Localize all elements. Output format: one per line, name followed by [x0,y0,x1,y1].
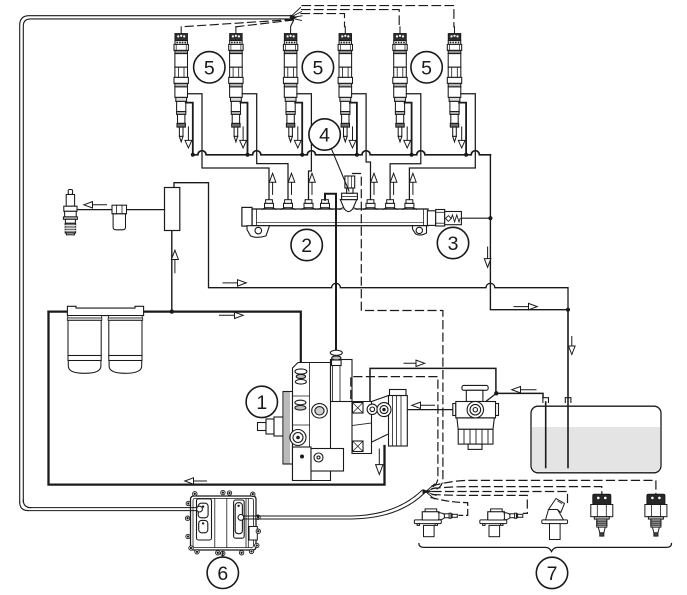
injector supply line 6 (rail port 7 to J6) [409,94,475,200]
injector J2 [229,27,243,142]
suction pipe top fitting [543,398,549,403]
return drop line (bus down to tank header) [490,155,568,310]
ECM right connector [234,500,245,538]
callout circle 5c [411,52,442,83]
injector supply line 1 (rail port 1 to J1) [188,94,270,200]
brace for group 7 [419,544,672,552]
injector harness wire 1 (dashed) [181,20,293,27]
strainer-to-pump line [390,409,468,411]
FCA solenoid wire (dashed) [351,377,438,488]
injector drain flow arrow 4 [349,127,356,148]
flow arrow down on return drop [484,247,491,267]
rail left mounting ear [247,226,270,238]
injector drain line 4 [350,103,357,155]
sensor wire 1 (dashed) [431,498,468,516]
svg-text:1: 1 [256,392,267,414]
flow arrow down beside pump return [376,449,383,475]
injector drain flow arrow 6 [458,127,465,148]
injector drain flow arrow 1 [185,127,192,148]
junction dot strainer top [494,391,498,395]
inline check fitting on bleed line [112,205,127,230]
injector drain line 6 [459,103,466,155]
intake air temperature sensor S5 [645,494,667,536]
relief valve outlet line [461,217,490,219]
callout circle 6 [207,557,238,588]
injector harness wire 3 (dashed) [290,21,293,27]
pump feed line (pump rear to strainer top) [370,368,496,404]
injector harness wire 2 (dashed) [236,20,294,27]
svg-text:3: 3 [448,233,459,255]
injector drain line 2 [241,103,248,155]
injector J5 [393,27,407,142]
rail supply flow arrow port1 [269,173,276,194]
injector drain flow arrow 3 [294,127,301,148]
sensor wire 3 (dashed) [433,492,568,504]
injector supply line 3 (rail port 3 to J3) [297,94,312,200]
injector supply line 5 (rail port 6 to J5) [390,94,421,200]
ECM left harness pipe [28,506,202,512]
bleed branch line up to return block [171,230,173,311]
harness fan point (top) [290,8,302,21]
callout circle 5a [194,52,225,83]
injector J1 [174,27,188,142]
back-leak return line (block to tank, hops at x336 and x490) [174,183,568,310]
rail pressure sensor wire (dashed) [353,174,443,490]
high pressure pump (1) [258,350,408,480]
flow arrow left on suction line [512,387,536,393]
rail supply flow arrow port7 [410,173,417,194]
junction dot relief/return [488,216,492,220]
injector drain line 3 [295,103,302,155]
filter can right [108,316,143,374]
ECM right harness pipe [238,491,425,521]
wiring harness trunk (ECM to injectors, solid double line) [20,16,292,511]
svg-text:4: 4 [319,125,330,147]
tank suction internal pipe [545,402,547,468]
filter can left [67,316,102,374]
rail port 1 [262,200,276,210]
injector J6 [447,27,461,142]
rail port 7 [402,200,416,210]
injector drain flow arrow 5 [404,127,411,148]
twin fuel filter head [67,306,143,315]
bus junction dot J3 [300,153,304,157]
flow arrow right on filter outlet line [220,312,244,318]
svg-text:5: 5 [421,57,432,79]
junction dot filter line / bleed branch [170,309,174,313]
injector J4 [338,27,352,142]
flow arrow left on pump return line [185,478,207,484]
rail port 3 [302,200,316,210]
junction dot return/tank [566,308,570,312]
injector supply line 4 (rail port 5 to J4) [352,94,371,200]
sensor harness fan point [423,484,437,499]
ECM left connector [197,499,212,540]
flow arrow right on tank header [514,303,537,309]
rail left end cap [242,207,252,226]
bus junction dot J2 [246,153,250,157]
rail right mounting ear [413,226,427,235]
callout circle 2 [291,229,322,260]
return-to-tank down pipe [567,310,569,468]
flow arrow right on back-leak line [223,280,246,286]
rail port 6 [383,200,397,210]
bleed line to drain valve [77,209,164,211]
suction line tank to strainer [496,393,543,397]
injector supply line 2 (rail port 2 to J2) [242,94,288,200]
injector return bus (with hops over supply lines) [193,151,491,155]
leader line circle4 to sensor [331,149,349,191]
rail port 2 [281,200,295,210]
fuel tank [531,406,661,473]
position sensor S3 (angled connector) [542,499,568,540]
coolant temperature sensor S4 [591,494,613,536]
flow arrow left on bleed line [84,202,107,208]
return pipe top fitting [565,398,571,403]
flow arrow right on pump feed line [404,360,425,366]
callout circle 3 [437,227,468,258]
sensor wire 2 (dashed) [432,495,527,514]
injector drain line 1 [186,103,193,155]
camshaft position sensor S2 [480,509,523,537]
callout circle 1 [246,386,277,417]
rail supply flow arrow port5 [371,173,378,194]
bus junction dot J5 [410,153,414,157]
pump return loop (thick): pump bottom to filter [49,312,385,485]
bus junction dot J6 [464,153,468,157]
svg-text:5: 5 [312,57,323,79]
svg-text:2: 2 [301,235,312,257]
injector drain flow arrow 2 [240,127,247,148]
rail port 4 (pump feed) [318,200,332,210]
ECM (6) box [191,496,258,550]
ECM mounting bolts [185,490,260,555]
strainer inlet diagonal [476,393,496,409]
injector harness wire 5 (dashed) [302,10,400,27]
injector harness wire 4 (dashed) [301,14,345,27]
fuel rail body (2) [252,209,428,226]
pressure relief valve (3) on rail right end [427,210,461,227]
callout circle 4 [309,119,340,150]
ECM leader line [222,552,224,558]
svg-text:6: 6 [217,563,228,585]
rail supply flow arrow port6 [390,173,397,194]
svg-text:5: 5 [204,57,215,79]
rail port 5 [364,200,378,210]
fuel drain/bleed valve (spark-plug shaped) [63,190,77,235]
svg-text:7: 7 [547,563,558,585]
rail supply flow arrow port2 [288,173,295,194]
callout circle 5b [302,52,333,83]
fuel return block [165,188,180,231]
sensor wire 4 (dashed, to left temp sensor) [432,487,602,495]
flow arrow up on bleed branch [171,250,178,273]
high pressure pump-to-rail line [325,194,336,351]
fuel strainer / pre-filter [453,385,499,449]
filter outlet line to pump inlet [49,312,301,370]
injector drain line 5 [405,103,412,155]
flow arrow down on tank return pipe [569,337,576,355]
rail supply flow arrow port3 [309,173,316,194]
injector J3 [283,27,297,142]
bus junction dot J4 [355,153,359,157]
crankshaft position sensor S1 [414,509,457,537]
pressure sensor U4 on rail [340,176,358,212]
bus junction dot J1 [191,153,195,157]
sensor wire 5 (dashed, to right temp sensor) [432,480,656,494]
callout circle 7 [536,557,567,588]
flow arrow left on strainer-to-pump line [412,402,435,408]
injector harness wire 6 (dashed) [302,6,454,27]
